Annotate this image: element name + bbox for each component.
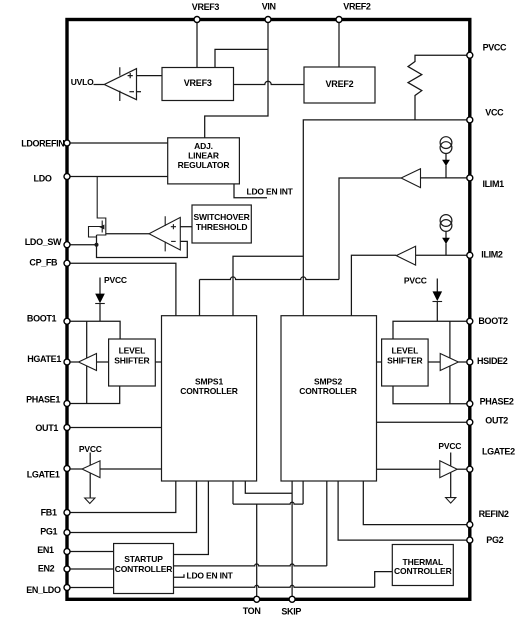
svg-text:ADJ.: ADJ. (194, 141, 213, 151)
svg-text:LEVEL: LEVEL (391, 345, 418, 355)
wire LGATE2 driver output to pin (457, 468, 466, 470)
wire PG1 pin to SMPS1 bottom (67, 481, 197, 533)
wire TON bracket SMPS1 to SMPS2 (hops SKIP) (232, 481, 234, 504)
wire startup controller to thermal controller (hops TON and SKIP) (174, 585, 375, 587)
block SMPS1 controller (162, 316, 257, 481)
wire ILIM1 pin to amp (421, 177, 470, 179)
ground symbol below LGATE1 driver (85, 498, 95, 504)
pin EN2 (64, 566, 70, 572)
svg-text:SMPS2: SMPS2 (314, 376, 342, 386)
svg-text:LGATE1: LGATE1 (27, 470, 60, 480)
transistor Q1 (LDO switchover PMOS) (89, 177, 106, 238)
driver HSIDE2 (440, 354, 458, 371)
wire VCC branch to SMPS1 top (233, 256, 303, 315)
wire diode D1 to BOOT1 (99, 278, 101, 295)
diode D2 (PVCC to BOOT2) (433, 291, 443, 301)
svg-text:VREF2: VREF2 (343, 2, 371, 12)
block level shifter 1 (109, 339, 156, 386)
wire level shifter 1 to HGATE1 driver input (97, 361, 109, 363)
wire PHASE2 pin to level shifter 2 (393, 386, 470, 404)
wire VREF3 block to UVLO + input (137, 75, 163, 77)
svg-text:SHIFTER: SHIFTER (387, 355, 422, 365)
wire EN1 pin to startup controller (67, 551, 114, 553)
svg-text:OUT1: OUT1 (35, 423, 58, 433)
block startup controller (114, 544, 174, 594)
svg-text:PVCC: PVCC (104, 275, 127, 285)
pin REFIN2 (467, 522, 473, 528)
svg-text:VREF3: VREF3 (184, 78, 212, 88)
diode D1 (PVCC to BOOT1) (95, 294, 105, 304)
wire BOOT1 pin to level shifter 1 (67, 321, 120, 339)
wire SMPS2 to level shifter 2 (377, 361, 382, 363)
wire PVCC supply through LGATE1 driver to ground (89, 453, 91, 498)
svg-text:ILIM1: ILIM1 (483, 179, 505, 189)
pin FB1 (64, 510, 70, 516)
wire EN2 pin to startup controller (67, 568, 114, 570)
pin LGATE1 (64, 466, 70, 472)
svg-text:EN2: EN2 (38, 564, 55, 574)
pin OUT1 (64, 425, 70, 431)
wire startup controller to SMPS2 bottom (hops TON and SKIP) (174, 564, 327, 566)
pin LDO (64, 174, 70, 180)
block VREF3 (162, 68, 234, 101)
wire ILIM2 amp output to SMPS2 top (351, 255, 396, 315)
wire VREF3 pin to VREF3 block (196, 20, 198, 68)
pin VCC (467, 117, 473, 123)
block ADJ linear regulator (168, 138, 240, 184)
svg-text:LDO: LDO (34, 174, 52, 184)
driver LGATE1 (82, 461, 100, 478)
wire UVLO output to UVLO net label (94, 84, 105, 86)
svg-text:VREF3: VREF3 (192, 2, 220, 12)
wire ILIM2 pin to amp (416, 254, 470, 256)
svg-text:LDOREFIN: LDOREFIN (21, 139, 64, 149)
pin ILIM1 (467, 175, 473, 181)
svg-text:FB1: FB1 (41, 508, 57, 518)
pin BOOT2 (467, 318, 473, 324)
wire BOOT2 branch to HSIDE2 driver supply / PHASE2 (449, 321, 451, 403)
svg-text:BOOT1: BOOT1 (27, 314, 57, 324)
pin PG1 (64, 530, 70, 536)
pin VREF2 (336, 17, 342, 23)
block switchover threshold (192, 205, 251, 243)
pin VREF3 (194, 17, 200, 23)
svg-text:SHIFTER: SHIFTER (114, 355, 149, 365)
resistor R1 (VIN to VCC) (408, 62, 422, 120)
wire FB1 pin to SMPS1 bottom (67, 481, 176, 513)
wire PG2 pin to SMPS2 bottom (338, 481, 470, 540)
svg-text:VIN: VIN (262, 2, 276, 12)
svg-text:HSIDE2: HSIDE2 (477, 356, 508, 366)
amplifier ILIM2 (396, 246, 415, 265)
svg-text:HGATE1: HGATE1 (27, 354, 61, 364)
wire LGATE1 driver output to pin (70, 468, 82, 470)
svg-text:REGULATOR: REGULATOR (178, 160, 230, 170)
wire EN_LDO pin to startup controller (67, 587, 114, 589)
driver LGATE2 (440, 461, 457, 478)
svg-text:EN1: EN1 (37, 545, 54, 555)
amplifier ILIM1 (401, 169, 420, 188)
svg-text:ILIM2: ILIM2 (481, 250, 503, 260)
wire switchover comparator output to MOSFET gate (106, 233, 149, 235)
svg-text:PVCC: PVCC (438, 441, 461, 451)
wire ADJ regulator to LDO EN INT label (234, 184, 267, 198)
svg-text:PG1: PG1 (40, 527, 57, 537)
wire VIN branch to VREF3 block top (215, 49, 268, 67)
wire REFIN2 pin to SMPS2 bottom (363, 481, 470, 525)
pin PHASE2 (467, 401, 473, 407)
svg-text:BOOT2: BOOT2 (478, 316, 508, 326)
svg-text:SMPS1: SMPS1 (195, 376, 223, 386)
pin LGATE2 (467, 466, 473, 472)
svg-text:OUT2: OUT2 (485, 415, 508, 425)
pin PG2 (467, 537, 473, 543)
pin EN_LDO (64, 585, 70, 591)
block thermal controller (392, 545, 453, 586)
pin SKIP (289, 596, 295, 602)
wire BOOT2 pin to level shifter 2 (393, 321, 470, 339)
svg-text:SWITCHOVER: SWITCHOVER (194, 212, 250, 222)
svg-text:CONTROLLER: CONTROLLER (394, 566, 452, 576)
wire TON pin up to SMPS bracket (256, 504, 258, 599)
svg-text:PHASE2: PHASE2 (480, 396, 514, 406)
wire HSIDE2 driver output to pin (458, 361, 466, 363)
svg-text:LGATE2: LGATE2 (482, 446, 515, 456)
svg-text:UVLO: UVLO (71, 77, 94, 87)
IC package border (67, 20, 470, 600)
wire SMPS1 bottom to startup controller (174, 481, 209, 555)
wire SMPS1 bottom to SKIP line bracket (245, 481, 292, 493)
pin HGATE1 (64, 359, 70, 365)
wire LDOREFIN pin to ADJ regulator (67, 142, 168, 144)
svg-text:CONTROLLER: CONTROLLER (115, 564, 173, 574)
pin HSIDE2 (467, 359, 473, 365)
ground symbol below LGATE2 driver (446, 498, 456, 504)
pin LDO_SW (64, 242, 70, 248)
svg-text:PHASE1: PHASE1 (26, 395, 60, 405)
current source I2 (ILIM2) (440, 215, 452, 244)
wire SMPS1 to LGATE1 driver input (100, 468, 162, 470)
pin VIN (265, 17, 271, 23)
pin TON (254, 596, 260, 602)
wire LDO pin to ADJ regulator (67, 176, 168, 178)
wire switchover loop (MOSFET source to comparator - input) (97, 235, 188, 258)
block level shifter 2 (382, 339, 429, 386)
svg-text:LDO EN INT: LDO EN INT (187, 570, 234, 580)
wire OUT1 pin to SMPS1 (67, 427, 162, 429)
wire SMPS2 to LGATE2 driver input (377, 468, 440, 470)
wire level shifter 1 to SMPS1 (155, 361, 161, 363)
svg-text:LDO_SW: LDO_SW (25, 237, 62, 247)
wire ILIM1 amp output to SMPS1 (hops over VCC lines) (339, 178, 401, 280)
comparator UVLO (104, 67, 136, 101)
wire diode D2 to BOOT2 (436, 279, 438, 292)
wire BOOT1 branch to HGATE1 driver supply / PHASE1 (86, 321, 88, 403)
pin EN1 (64, 549, 70, 555)
pin PHASE1 (64, 401, 70, 407)
wire SKIP pin up to SMPS2 bottom (291, 481, 293, 599)
svg-text:LEVEL: LEVEL (119, 345, 146, 355)
pin ILIM2 (467, 252, 473, 258)
wire level shifter 2 to HSIDE2 driver input (428, 361, 440, 363)
pin BOOT1 (64, 318, 70, 324)
svg-text:LDO EN INT: LDO EN INT (247, 187, 294, 197)
wire HGATE1 driver output to pin (70, 361, 78, 363)
pin LDOREFIN (64, 140, 70, 146)
block VREF2 (304, 67, 375, 103)
wire VCC pin rail down to SMPS2 top (303, 120, 470, 316)
svg-text:CP_FB: CP_FB (29, 257, 58, 267)
wire startup controller LDO EN INT stub (174, 574, 185, 577)
wire PVCC pin to resistor (415, 55, 470, 62)
current source I1 (ILIM1) (440, 137, 452, 166)
svg-text:PVCC: PVCC (79, 444, 102, 454)
svg-text:CONTROLLER: CONTROLLER (180, 386, 238, 396)
wire VREF3 block to VREF2 block (hop over VIN line) (234, 81, 305, 84)
wire CP_FB pin to SMPS1 top (67, 263, 176, 316)
wire PHASE1 pin to level shifter 1 (67, 386, 120, 404)
svg-text:EN_LDO: EN_LDO (26, 585, 61, 595)
pin PVCC (467, 52, 473, 58)
wire current source I2 to ILIM2 line (445, 231, 447, 238)
block SMPS2 controller (281, 316, 377, 481)
svg-text:STARTUP: STARTUP (124, 554, 163, 564)
driver HGATE1 (79, 354, 97, 371)
svg-text:CONTROLLER: CONTROLLER (299, 386, 357, 396)
svg-text:PG2: PG2 (486, 535, 503, 545)
svg-text:SKIP: SKIP (281, 606, 301, 616)
svg-text:VCC: VCC (485, 108, 504, 118)
pin OUT2 (467, 419, 473, 425)
svg-text:TON: TON (243, 606, 261, 616)
wire current source I1 to ILIM1 line (445, 153, 447, 160)
svg-text:PVCC: PVCC (483, 42, 507, 52)
wire VREF2 pin to VREF2 block (338, 20, 340, 68)
junction LDO_SW node (95, 243, 99, 247)
svg-text:VREF2: VREF2 (325, 79, 353, 89)
wire OUT2 pin to SMPS2 (377, 421, 470, 423)
wire UVLO - input stub (137, 91, 142, 93)
wire switchover threshold to comparator + input (180, 226, 192, 228)
wire PVCC supply through LGATE2 driver to ground (450, 453, 452, 498)
wire LDO_SW pin to switch (67, 244, 97, 246)
svg-text:PVCC: PVCC (404, 275, 427, 285)
svg-text:THRESHOLD: THRESHOLD (196, 222, 248, 232)
comparator switchover (149, 216, 180, 251)
svg-text:REFIN2: REFIN2 (479, 509, 509, 519)
pin CP_FB (64, 260, 70, 266)
wire VIN pin down to ADJ linear regulator (205, 20, 268, 138)
